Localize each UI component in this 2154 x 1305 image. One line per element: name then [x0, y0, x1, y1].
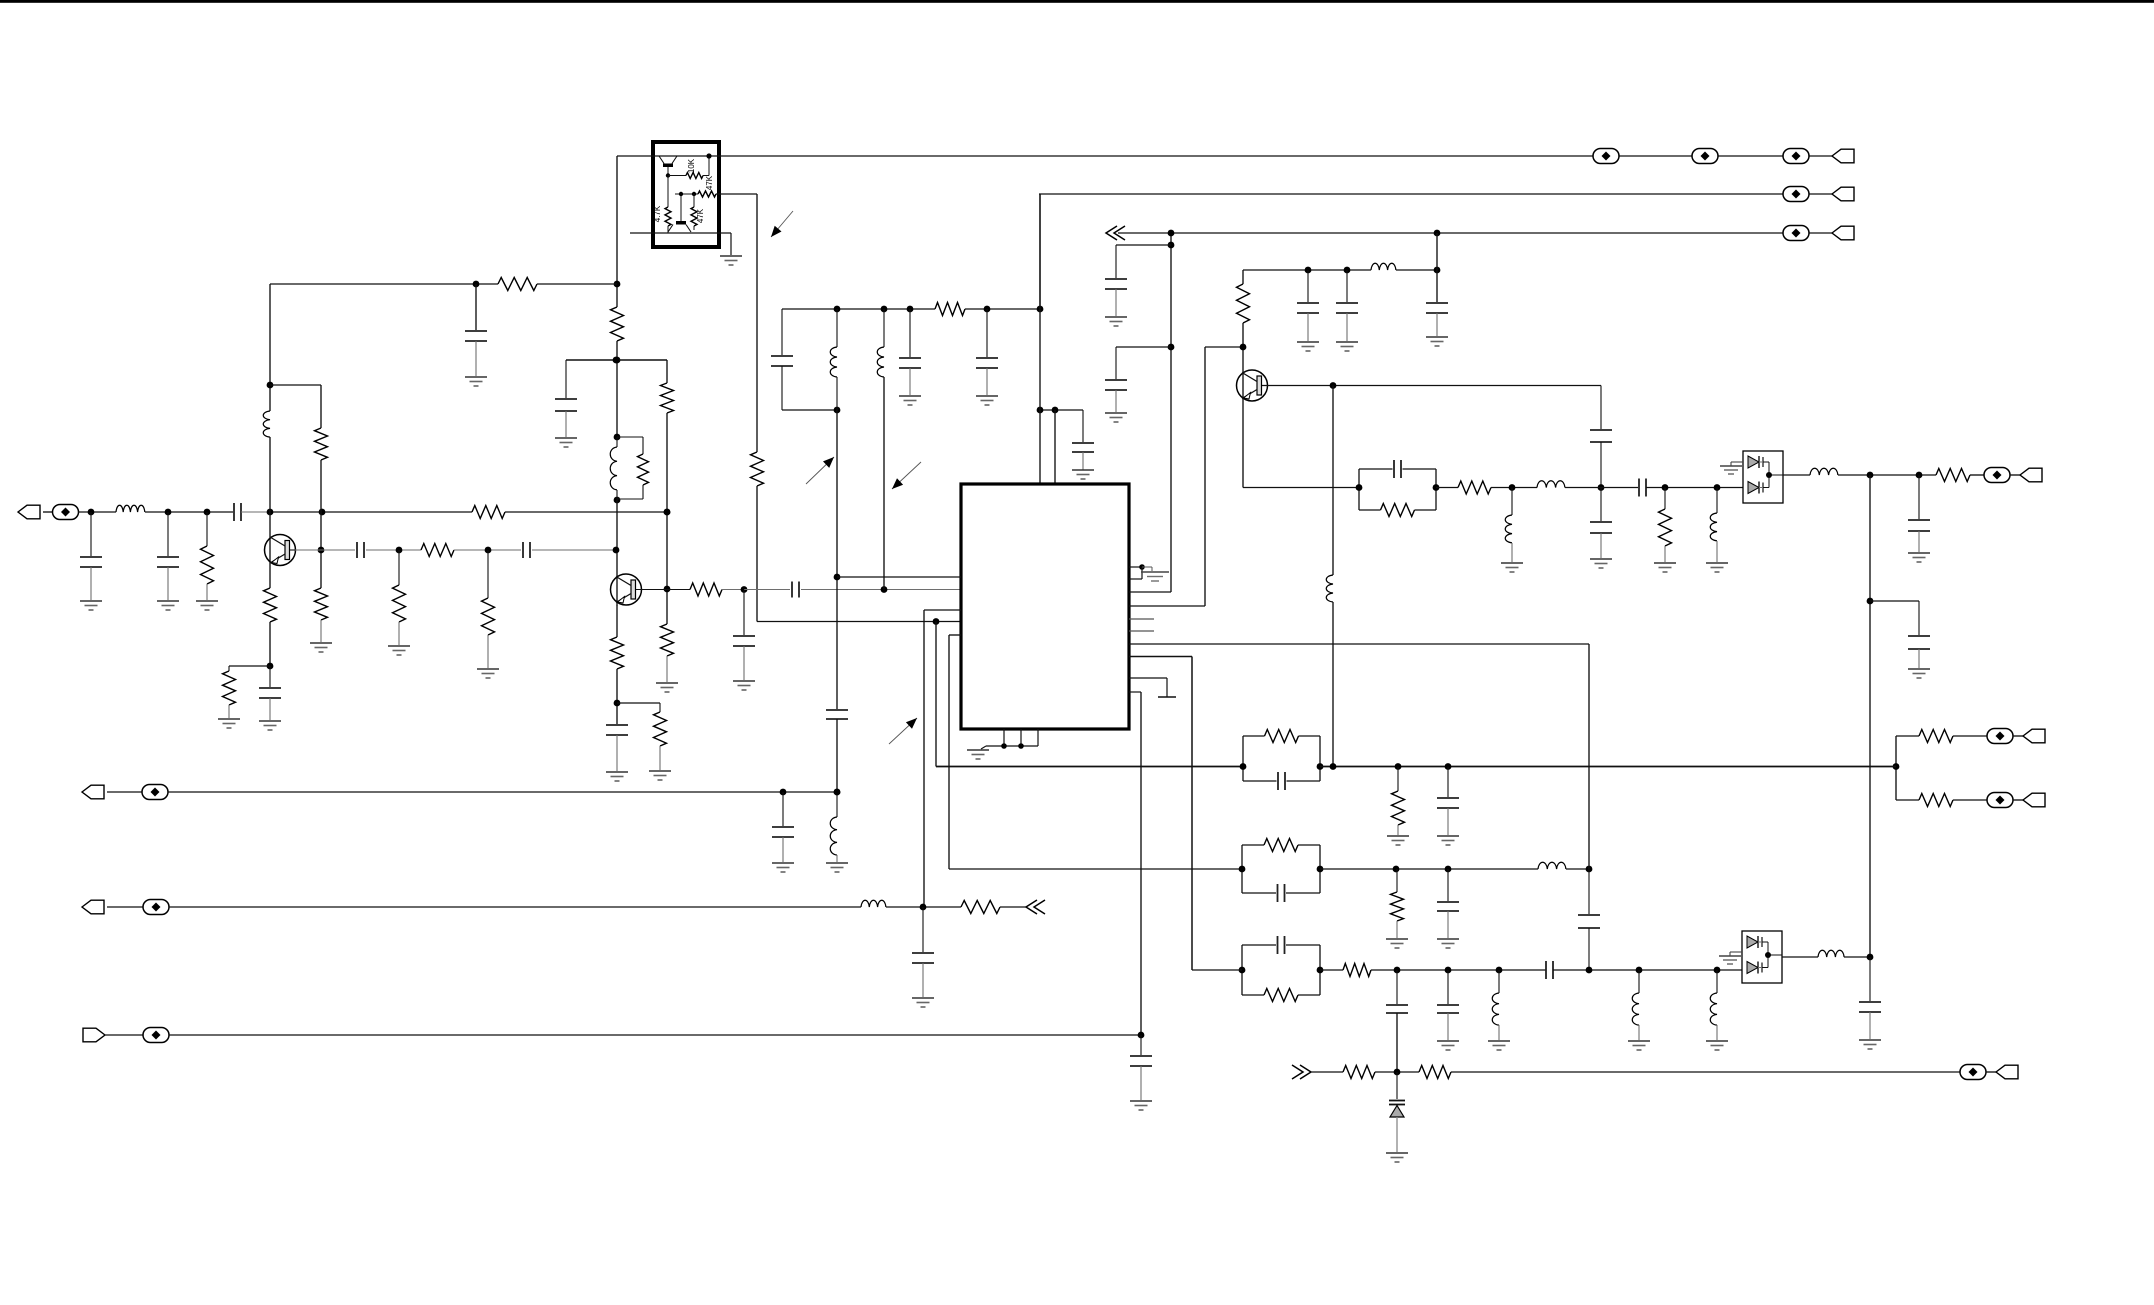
- svg-text:4.7K: 4.7K: [653, 205, 662, 222]
- svg-text:10K: 10K: [687, 158, 696, 173]
- svg-text:47K: 47K: [705, 175, 714, 190]
- svg-text:47K: 47K: [696, 208, 705, 223]
